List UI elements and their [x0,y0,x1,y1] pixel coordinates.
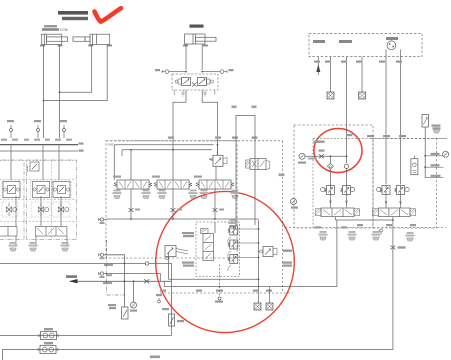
svg-text:CCM: CCM [60,28,68,32]
svg-text:SAE: SAE [108,143,114,147]
